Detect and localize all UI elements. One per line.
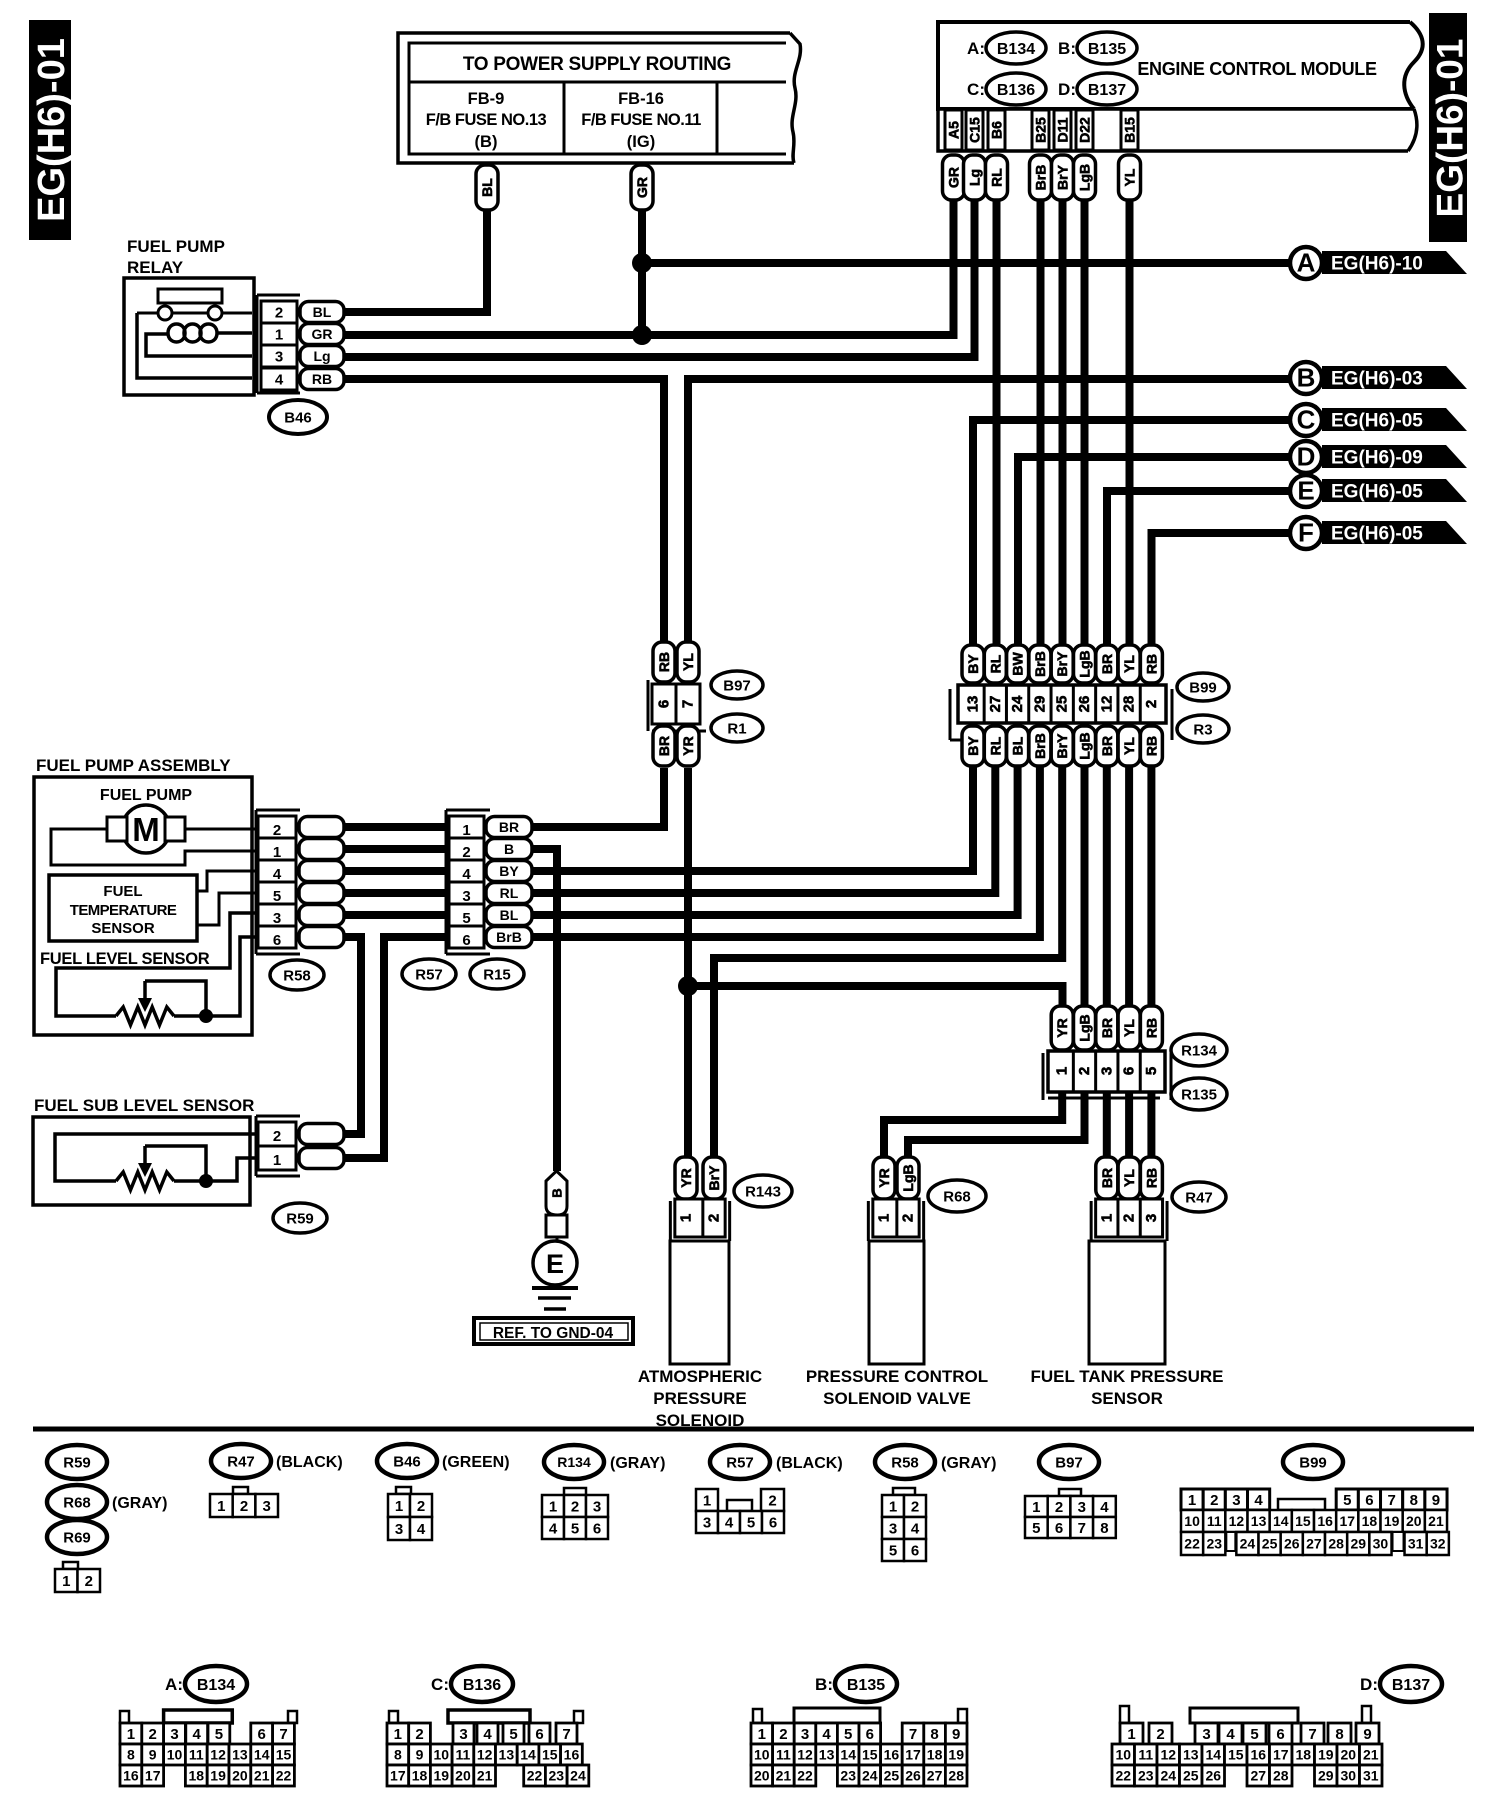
svg-text:1: 1 [127, 1726, 135, 1743]
svg-text:RB: RB [656, 652, 672, 672]
svg-text:B137: B137 [1392, 1677, 1430, 1694]
wire YR B97-7 junction to R143/R134 [684, 768, 692, 1157]
ECM pin D22 [1076, 110, 1093, 150]
wire YR to R134-1 [688, 986, 1063, 1008]
svg-text:BL: BL [500, 907, 519, 923]
svg-text:24: 24 [1160, 1768, 1176, 1784]
connector ref R15 [470, 959, 524, 989]
svg-text:B46: B46 [393, 1453, 421, 1470]
svg-text:A: A [1297, 248, 1316, 278]
svg-text:2: 2 [273, 822, 281, 839]
svg-text:EG(H6)-01: EG(H6)-01 [31, 38, 73, 222]
svg-text:4: 4 [275, 371, 284, 388]
svg-text:9: 9 [1363, 1726, 1371, 1743]
svg-text:4: 4 [462, 866, 471, 883]
svg-text:16: 16 [564, 1747, 580, 1763]
svg-text:R134: R134 [557, 1454, 591, 1470]
svg-text:28: 28 [948, 1768, 964, 1784]
svg-text:32: 32 [1430, 1536, 1446, 1552]
svg-text:6: 6 [1055, 1520, 1063, 1537]
svg-text:EG(H6)-09: EG(H6)-09 [1331, 448, 1423, 469]
connector ref R47 [1172, 1182, 1226, 1212]
svg-text:12: 12 [797, 1747, 813, 1763]
separator line [33, 1427, 1474, 1432]
legend ref R68 (GRAY) [47, 1485, 167, 1519]
fuel sub level sensor potentiometer [55, 1134, 258, 1190]
svg-text:5: 5 [462, 910, 470, 927]
svg-text:BrB: BrB [1032, 651, 1048, 677]
svg-text:14: 14 [840, 1747, 856, 1763]
svg-text:2: 2 [571, 1498, 579, 1515]
wire temp sensor to R58-4 [197, 871, 258, 891]
wire GR relay to ECM A5 [345, 200, 954, 335]
svg-text:22: 22 [527, 1768, 543, 1784]
svg-text:22: 22 [797, 1768, 813, 1784]
svg-text:REF. TO GND-04: REF. TO GND-04 [493, 1325, 614, 1342]
svg-text:R59: R59 [286, 1210, 314, 1227]
ECM pinout D:B137 [1112, 1666, 1442, 1786]
svg-text:12: 12 [1229, 1513, 1245, 1529]
svg-text:5: 5 [571, 1520, 579, 1537]
svg-text:2: 2 [85, 1573, 93, 1590]
svg-text:B: B [550, 1188, 565, 1197]
junction YR [678, 976, 698, 996]
svg-text:B97: B97 [1055, 1454, 1083, 1471]
legend connector R57 [696, 1489, 784, 1533]
connector R47 pins [1091, 1157, 1167, 1241]
svg-text:A:: A: [165, 1675, 183, 1694]
svg-text:BR: BR [1099, 654, 1115, 674]
svg-text:5: 5 [844, 1726, 852, 1743]
svg-text:31: 31 [1408, 1536, 1424, 1552]
svg-text:7: 7 [1078, 1520, 1086, 1537]
svg-text:2: 2 [275, 304, 283, 321]
svg-text:FUEL PUMP: FUEL PUMP [127, 237, 225, 256]
wire IG to arrow A [642, 259, 1290, 267]
svg-text:BL: BL [479, 178, 495, 197]
svg-text:2: 2 [273, 1128, 281, 1145]
svg-text:(GRAY): (GRAY) [941, 1455, 996, 1472]
wire BrB R59-1 to R57-6 [344, 937, 449, 1158]
svg-text:YL: YL [1121, 737, 1137, 755]
fuel tank pressure sensor label [1030, 1367, 1223, 1408]
arrow C EG(H6)-05 [1290, 404, 1467, 436]
svg-text:20: 20 [232, 1768, 248, 1784]
svg-text:6: 6 [769, 1514, 777, 1531]
svg-text:YL: YL [680, 653, 696, 671]
svg-text:YL: YL [1122, 168, 1138, 186]
svg-text:(GREEN): (GREEN) [442, 1454, 510, 1471]
wire BrB ECM B25 to B99-29 [1037, 200, 1045, 648]
svg-text:EG(H6)-03: EG(H6)-03 [1331, 369, 1423, 390]
wire RB R134-5 to R47-3 [1147, 1092, 1155, 1157]
wire Lg relay to ECM C15 [345, 200, 975, 357]
svg-text:19: 19 [948, 1747, 964, 1763]
svg-text:23: 23 [1138, 1768, 1154, 1784]
svg-text:29: 29 [1031, 696, 1048, 713]
svg-text:19: 19 [1384, 1513, 1400, 1529]
svg-text:1: 1 [876, 1214, 893, 1222]
svg-text:25: 25 [884, 1768, 900, 1784]
svg-text:4: 4 [193, 1726, 202, 1743]
svg-text:5: 5 [1250, 1726, 1258, 1743]
legend connector R134 [542, 1488, 608, 1539]
arrow F EG(H6)-05 [1290, 517, 1467, 549]
svg-text:D:: D: [1058, 80, 1076, 99]
svg-text:BrY: BrY [1055, 164, 1071, 190]
connector ref R1 [711, 714, 763, 742]
svg-text:BR: BR [1099, 736, 1115, 756]
svg-text:R69: R69 [63, 1529, 91, 1546]
svg-text:RB: RB [1143, 654, 1159, 674]
svg-text:7: 7 [279, 1726, 287, 1743]
svg-text:15: 15 [542, 1747, 558, 1763]
svg-text:4: 4 [549, 1520, 558, 1537]
svg-text:2: 2 [1121, 1214, 1138, 1222]
svg-text:8: 8 [394, 1747, 402, 1763]
svg-text:28: 28 [1328, 1536, 1344, 1552]
svg-text:16: 16 [1250, 1747, 1266, 1763]
svg-text:R1: R1 [727, 720, 746, 737]
svg-text:2: 2 [706, 1214, 723, 1222]
wire YL R134-6 to R47-2 [1125, 1092, 1133, 1157]
fuel pump relay [124, 237, 254, 395]
svg-text:(B): (B) [475, 133, 498, 151]
connector ref R143 [734, 1175, 792, 1207]
svg-text:21: 21 [1363, 1747, 1379, 1763]
svg-text:5: 5 [889, 1542, 897, 1559]
svg-text:BrY: BrY [1054, 733, 1070, 759]
svg-text:RB: RB [1143, 1018, 1159, 1038]
svg-text:6: 6 [1121, 1067, 1138, 1075]
svg-text:26: 26 [1076, 696, 1093, 713]
svg-text:17: 17 [145, 1768, 161, 1784]
relay connector B46 pins [257, 295, 344, 393]
wire label GR at ECM [943, 155, 965, 200]
connector B99/R3 pins [950, 645, 1172, 766]
arrow E EG(H6)-05 [1290, 475, 1467, 507]
wire label Lg at ECM [964, 155, 986, 200]
svg-text:B134: B134 [197, 1677, 235, 1694]
svg-text:EG(H6)-05: EG(H6)-05 [1331, 411, 1423, 432]
wire label BrY at ECM [1052, 155, 1074, 200]
svg-text:YR: YR [678, 1168, 694, 1187]
svg-text:24: 24 [862, 1768, 878, 1784]
wire GR fuse drop [638, 210, 646, 335]
fuel sub level sensor box [33, 1096, 254, 1205]
junction GR / relay [632, 325, 652, 345]
wire B R57-2 to ground E [532, 849, 557, 1171]
svg-text:1: 1 [275, 326, 283, 343]
svg-text:18: 18 [1295, 1747, 1311, 1763]
svg-text:B134: B134 [997, 41, 1035, 58]
connector ref R134 [1171, 1034, 1227, 1066]
svg-text:20: 20 [1406, 1513, 1422, 1529]
svg-text:9: 9 [149, 1747, 157, 1763]
svg-text:E: E [1297, 476, 1314, 506]
svg-text:4: 4 [1254, 1492, 1263, 1509]
svg-text:6: 6 [656, 700, 673, 708]
junction GR / EG(H6)-10 [632, 253, 652, 273]
svg-text:(BLACK): (BLACK) [776, 1455, 843, 1472]
wire YR R134-1 to R68-1 [884, 1092, 1062, 1157]
wire RB B99-2 to arrow F [1152, 533, 1291, 648]
wire RL R3 to R57-3 [532, 766, 995, 893]
svg-text:C:: C: [431, 1675, 449, 1694]
svg-text:FUEL LEVEL SENSOR: FUEL LEVEL SENSOR [40, 950, 210, 968]
connector R58 pins [256, 810, 344, 954]
svg-text:10: 10 [433, 1747, 449, 1763]
connector R143 pins [670, 1157, 729, 1241]
svg-text:LgB: LgB [1077, 164, 1093, 191]
svg-text:24: 24 [1240, 1536, 1256, 1552]
svg-text:4: 4 [1100, 1499, 1109, 1516]
svg-text:18: 18 [189, 1768, 205, 1784]
arrow B EG(H6)-03 [1290, 362, 1467, 394]
svg-text:R3: R3 [1193, 721, 1212, 738]
legend connector R58 [882, 1488, 926, 1561]
ECM pin A5 [945, 110, 962, 150]
svg-text:1: 1 [273, 844, 281, 861]
svg-text:10: 10 [1115, 1747, 1131, 1763]
wire YL B97-7 to arrow B [688, 379, 1290, 645]
svg-text:3: 3 [703, 1514, 711, 1531]
ECM label A:B134 [967, 32, 1046, 64]
legend ref R69 [47, 1520, 107, 1554]
ref to GND-04 box [474, 1318, 633, 1344]
power supply routing box [398, 33, 800, 163]
svg-text:3: 3 [593, 1498, 601, 1515]
legend ref R59 [47, 1445, 107, 1479]
svg-text:BR: BR [656, 736, 672, 756]
svg-text:B:: B: [815, 1675, 833, 1694]
svg-text:EG(H6)-05: EG(H6)-05 [1331, 524, 1423, 545]
svg-text:22: 22 [1115, 1768, 1131, 1784]
wire BL R58-3 to R57-5 [344, 911, 449, 919]
svg-text:4: 4 [417, 1521, 426, 1538]
svg-text:EG(H6)-10: EG(H6)-10 [1331, 254, 1423, 275]
legend ref B97 [1039, 1445, 1099, 1479]
arrow A EG(H6)-10 [1290, 247, 1467, 279]
svg-text:YR: YR [680, 736, 696, 755]
svg-text:R68: R68 [943, 1188, 971, 1205]
wire BY B99-13 to arrow C [973, 420, 1290, 648]
wire RB relay to B97-6 [345, 379, 664, 645]
svg-text:18: 18 [1362, 1513, 1378, 1529]
wire YL ECM B15 to B99-28 [1126, 200, 1134, 648]
svg-text:FUEL SUB LEVEL SENSOR: FUEL SUB LEVEL SENSOR [34, 1096, 254, 1115]
svg-text:Lg: Lg [313, 348, 330, 364]
svg-text:(GRAY): (GRAY) [610, 1455, 665, 1472]
svg-text:F/B FUSE NO.11: F/B FUSE NO.11 [581, 111, 701, 129]
wire LgB R3 to R134-2 [1081, 766, 1089, 1008]
svg-text:BrB: BrB [1032, 733, 1048, 759]
svg-text:29: 29 [1318, 1768, 1334, 1784]
svg-text:5: 5 [1032, 1520, 1040, 1537]
legend connector B97 [1025, 1489, 1116, 1538]
svg-text:14: 14 [254, 1747, 270, 1763]
legend ref R57 (BLACK) [710, 1445, 843, 1479]
svg-text:22: 22 [276, 1768, 292, 1784]
svg-text:8: 8 [930, 1726, 938, 1743]
svg-text:6: 6 [866, 1726, 874, 1743]
svg-text:2: 2 [768, 1492, 776, 1509]
svg-text:2: 2 [149, 1726, 157, 1743]
svg-text:1: 1 [889, 1498, 897, 1515]
svg-text:R135: R135 [1181, 1086, 1217, 1103]
connector ref B46 [269, 400, 327, 434]
svg-text:B46: B46 [284, 409, 312, 426]
wire BR R134-3 to R47-1 [1103, 1092, 1111, 1157]
svg-text:Lg: Lg [967, 169, 983, 186]
atmospheric pressure solenoid label [638, 1367, 762, 1430]
svg-text:R58: R58 [891, 1454, 919, 1471]
svg-text:21: 21 [254, 1768, 270, 1784]
svg-text:14: 14 [520, 1747, 536, 1763]
ECM label C:B136 [967, 73, 1046, 105]
svg-text:3: 3 [1232, 1492, 1240, 1509]
svg-text:5: 5 [509, 1726, 517, 1743]
wire LgB ECM D22 to B99-26 [1081, 200, 1089, 648]
svg-text:R59: R59 [63, 1454, 91, 1471]
svg-text:3: 3 [170, 1726, 178, 1743]
svg-text:4: 4 [911, 1520, 920, 1537]
svg-text:15: 15 [1228, 1747, 1244, 1763]
svg-text:PRESSURE: PRESSURE [653, 1389, 747, 1408]
svg-text:BL: BL [313, 304, 332, 320]
svg-text:B99: B99 [1299, 1454, 1327, 1471]
svg-text:FUEL PUMP: FUEL PUMP [100, 787, 192, 804]
svg-text:20: 20 [1340, 1747, 1356, 1763]
svg-text:5: 5 [1143, 1067, 1160, 1075]
svg-text:31: 31 [1363, 1768, 1379, 1784]
svg-text:(GRAY): (GRAY) [112, 1495, 167, 1512]
svg-text:1: 1 [758, 1726, 766, 1743]
svg-text:B135: B135 [847, 1677, 885, 1694]
svg-text:18: 18 [412, 1768, 428, 1784]
svg-text:BL: BL [1010, 736, 1026, 755]
svg-text:FB-9: FB-9 [468, 90, 505, 108]
svg-text:2: 2 [1156, 1726, 1164, 1743]
svg-text:6: 6 [911, 1542, 919, 1559]
svg-text:D:: D: [1360, 1675, 1378, 1694]
svg-text:23: 23 [548, 1768, 564, 1784]
connector R57/R15 pins [446, 810, 532, 954]
svg-text:2: 2 [1076, 1067, 1093, 1075]
svg-text:5: 5 [273, 888, 281, 905]
svg-text:27: 27 [1250, 1768, 1266, 1784]
svg-text:1: 1 [395, 1498, 403, 1515]
svg-text:R15: R15 [483, 966, 511, 983]
svg-text:1: 1 [462, 822, 470, 839]
fuel level sensor potentiometer [56, 913, 258, 1025]
svg-text:20: 20 [754, 1768, 770, 1784]
svg-text:3: 3 [1143, 1214, 1160, 1222]
svg-text:26: 26 [1205, 1768, 1221, 1784]
svg-text:RL: RL [989, 168, 1005, 187]
ECM pinout B:B135 [751, 1666, 967, 1786]
svg-text:7: 7 [680, 700, 697, 708]
svg-text:1: 1 [1127, 1726, 1135, 1743]
svg-text:3: 3 [1202, 1726, 1210, 1743]
svg-text:28: 28 [1273, 1768, 1289, 1784]
svg-text:7: 7 [1387, 1492, 1395, 1509]
legend ref R134 (GRAY) [544, 1445, 665, 1479]
connector ref R58 [270, 960, 324, 990]
svg-text:6: 6 [273, 932, 281, 949]
svg-text:9: 9 [1432, 1492, 1440, 1509]
svg-text:13: 13 [232, 1747, 248, 1763]
svg-text:RL: RL [500, 885, 519, 901]
ECM label B:B135 [1058, 32, 1137, 64]
svg-text:B25: B25 [1033, 117, 1049, 143]
svg-text:4: 4 [822, 1726, 831, 1743]
svg-text:23: 23 [840, 1768, 856, 1784]
svg-text:1: 1 [273, 1152, 281, 1169]
svg-text:1: 1 [1098, 1214, 1115, 1222]
svg-text:26: 26 [905, 1768, 921, 1784]
wire BR R3 to R134-3 [1103, 766, 1111, 1008]
wire label YL at ECM [1119, 155, 1141, 200]
ECM pinout C:B136 [387, 1666, 589, 1786]
svg-text:LgB: LgB [1077, 732, 1093, 759]
svg-text:LgB: LgB [900, 1164, 916, 1191]
svg-text:13: 13 [819, 1747, 835, 1763]
connector ref B99 [1177, 673, 1229, 701]
svg-text:30: 30 [1373, 1536, 1389, 1552]
svg-text:1: 1 [217, 1498, 225, 1515]
svg-text:24: 24 [1009, 695, 1026, 712]
svg-text:B136: B136 [463, 1677, 501, 1694]
wire BrY R3 to R143-2 [714, 766, 1062, 1157]
svg-text:6: 6 [258, 1726, 266, 1743]
svg-text:3: 3 [889, 1520, 897, 1537]
svg-text:5: 5 [215, 1726, 223, 1743]
svg-text:27: 27 [987, 696, 1004, 713]
wire label GR at fuse FB-16 [631, 165, 653, 210]
svg-text:D: D [1297, 442, 1316, 472]
svg-text:13: 13 [1183, 1747, 1199, 1763]
svg-text:B15: B15 [1122, 117, 1138, 143]
svg-text:R57: R57 [726, 1454, 754, 1471]
svg-text:RL: RL [987, 736, 1003, 755]
connector ref R57 [402, 959, 456, 989]
svg-text:17: 17 [905, 1747, 921, 1763]
svg-text:SENSOR: SENSOR [1091, 1389, 1163, 1408]
svg-text:12: 12 [1160, 1747, 1176, 1763]
svg-text:RB: RB [1143, 1168, 1159, 1188]
wire BR R58-2 to R57-1 [344, 823, 449, 831]
fuel tank pressure sensor body [1089, 1241, 1165, 1364]
svg-text:8: 8 [1335, 1726, 1343, 1743]
page label EG(H6)-01 right [1429, 13, 1471, 242]
svg-text:RELAY: RELAY [127, 258, 184, 277]
svg-text:1: 1 [549, 1498, 557, 1515]
svg-text:R47: R47 [1185, 1189, 1213, 1206]
svg-text:R143: R143 [745, 1183, 781, 1200]
wire RL R58-5 to R57-3 [344, 889, 449, 897]
svg-text:4: 4 [273, 866, 282, 883]
wire LgB R134-2 to R68-2 [908, 1092, 1085, 1157]
svg-text:3: 3 [459, 1726, 467, 1743]
ECM label D:B137 [1058, 73, 1137, 105]
svg-text:2: 2 [779, 1726, 787, 1743]
wire B R58-1 to R57-2 [344, 845, 449, 853]
svg-text:B137: B137 [1088, 82, 1126, 99]
svg-text:FUEL TANK PRESSURE: FUEL TANK PRESSURE [1030, 1367, 1223, 1386]
ECM pin D11 [1054, 110, 1071, 150]
wire YR junction to R143-1 [684, 986, 692, 1157]
